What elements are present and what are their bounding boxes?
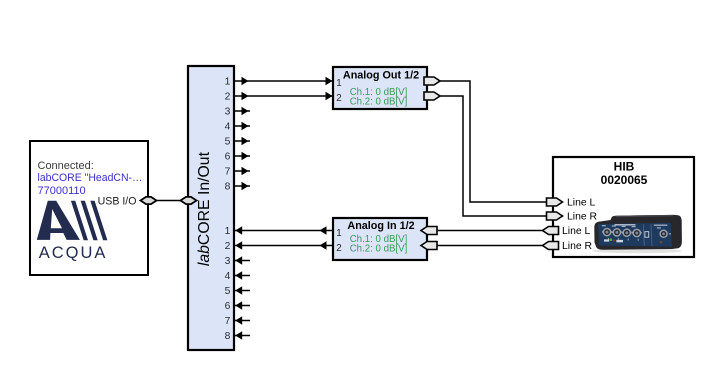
svg-text:7: 7 [225,167,231,178]
svg-text:6: 6 [225,301,231,312]
svg-text:4: 4 [225,271,231,282]
svg-text:0020065: 0020065 [601,173,648,187]
svg-text:labCORE In/Out: labCORE In/Out [196,151,213,266]
svg-text:3: 3 [225,256,231,267]
svg-text:5: 5 [225,137,231,148]
svg-text:Analog In 1/2: Analog In 1/2 [347,220,414,232]
svg-text:1: 1 [336,78,341,89]
svg-text:2: 2 [336,243,341,254]
svg-text:1: 1 [336,228,341,239]
svg-text:7: 7 [225,316,231,327]
svg-text:6: 6 [225,152,231,163]
svg-text:1: 1 [225,77,231,88]
svg-text:Ch.2: 0 dB[V]: Ch.2: 0 dB[V] [350,97,408,108]
svg-text:77000110: 77000110 [38,185,86,197]
svg-text:5: 5 [225,286,231,297]
svg-text:Line R: Line R [562,241,593,252]
svg-text:Line R: Line R [567,212,598,223]
svg-text:3: 3 [225,107,231,118]
svg-text:2: 2 [225,92,231,103]
svg-text:Line L: Line L [562,226,591,237]
svg-text:labCORE "HeadCN-…: labCORE "HeadCN-… [38,172,143,184]
svg-text:ACQUA: ACQUA [39,244,108,262]
svg-text:2: 2 [225,241,231,252]
svg-text:USB I/O: USB I/O [98,195,137,207]
svg-text:Connected:: Connected: [38,160,94,172]
svg-text:2: 2 [336,93,341,104]
svg-text:1: 1 [225,226,231,237]
svg-text:Ch.2: 0 dB[V]: Ch.2: 0 dB[V] [350,243,408,254]
svg-text:8: 8 [225,331,231,342]
svg-text:4: 4 [225,122,231,133]
svg-text:Analog Out 1/2: Analog Out 1/2 [343,70,419,82]
svg-text:8: 8 [225,182,231,193]
svg-text:HIB: HIB [614,160,635,174]
svg-text:Line L: Line L [567,198,596,209]
